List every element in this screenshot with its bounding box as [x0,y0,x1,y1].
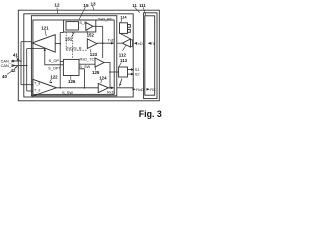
svg-text:RxD: RxD [107,90,115,95]
svg-text:S_SW: S_SW [62,90,73,95]
svg-text:Fig. 3: Fig. 3 [139,109,162,119]
svg-text:121: 121 [41,26,49,31]
svg-text:12: 12 [54,3,60,8]
svg-text:S_SW: S_SW [79,64,90,69]
svg-text:S_OP: S_OP [49,58,60,63]
svg-text:111: 111 [139,3,146,8]
svg-text:112: 112 [119,53,127,58]
svg-text:126: 126 [68,79,76,84]
svg-text:40: 40 [2,74,7,79]
svg-text:122: 122 [50,75,58,80]
svg-text:S_OPT: S_OPT [48,66,61,71]
svg-text:15: 15 [83,3,89,8]
svg-text:RX: RX [150,87,156,92]
svg-text:TxD/S_B: TxD/S_B [66,46,82,51]
svg-text:CAN_L: CAN_L [1,63,14,68]
svg-text:T_a: T_a [34,82,41,86]
svg-text:114: 114 [120,14,127,19]
svg-text:TxD_PC: TxD_PC [98,17,113,22]
svg-text:TxD: TxD [108,38,115,43]
svg-text:124: 124 [99,76,107,81]
svg-text:13: 13 [91,1,97,6]
svg-text:S2: S2 [135,72,140,77]
svg-text:151: 151 [65,37,73,42]
svg-text:TX: TX [150,41,155,46]
svg-text:S_B: S_B [79,20,87,25]
svg-text:RxD_TC: RxD_TC [80,56,95,61]
svg-text:152: 152 [87,33,95,38]
svg-text:TxD: TxD [135,41,142,46]
svg-text:41: 41 [13,53,18,58]
svg-text:11: 11 [132,3,137,8]
svg-text:42: 42 [11,68,16,73]
svg-text:T_d: T_d [34,89,40,93]
svg-text:125: 125 [92,70,100,75]
svg-text:113: 113 [120,58,128,63]
svg-text:RxD: RxD [136,87,144,92]
